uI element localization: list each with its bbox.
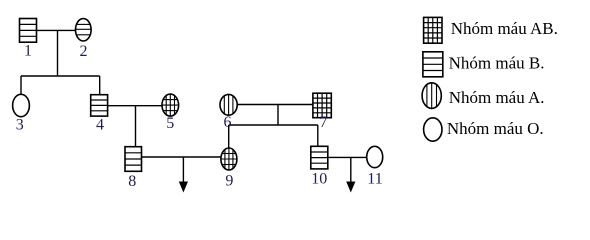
svg-text:7: 7 [320, 114, 328, 131]
svg-text:10: 10 [311, 171, 327, 188]
svg-text:3: 3 [16, 117, 24, 134]
svg-text:11: 11 [367, 171, 382, 188]
svg-text:1: 1 [24, 42, 32, 59]
svg-text:8: 8 [128, 173, 136, 190]
svg-text:Nhóm máu B.: Nhóm máu B. [449, 53, 545, 72]
svg-text:6: 6 [224, 114, 232, 131]
svg-text:2: 2 [80, 43, 88, 60]
svg-text:Nhóm máu O.: Nhóm máu O. [447, 119, 544, 138]
svg-text:Nhóm máu A.: Nhóm máu A. [449, 88, 545, 107]
svg-text:4: 4 [96, 117, 104, 134]
svg-text:5: 5 [166, 115, 174, 132]
svg-text:Nhóm máu AB.: Nhóm máu AB. [451, 19, 558, 38]
svg-text:9: 9 [225, 172, 233, 189]
